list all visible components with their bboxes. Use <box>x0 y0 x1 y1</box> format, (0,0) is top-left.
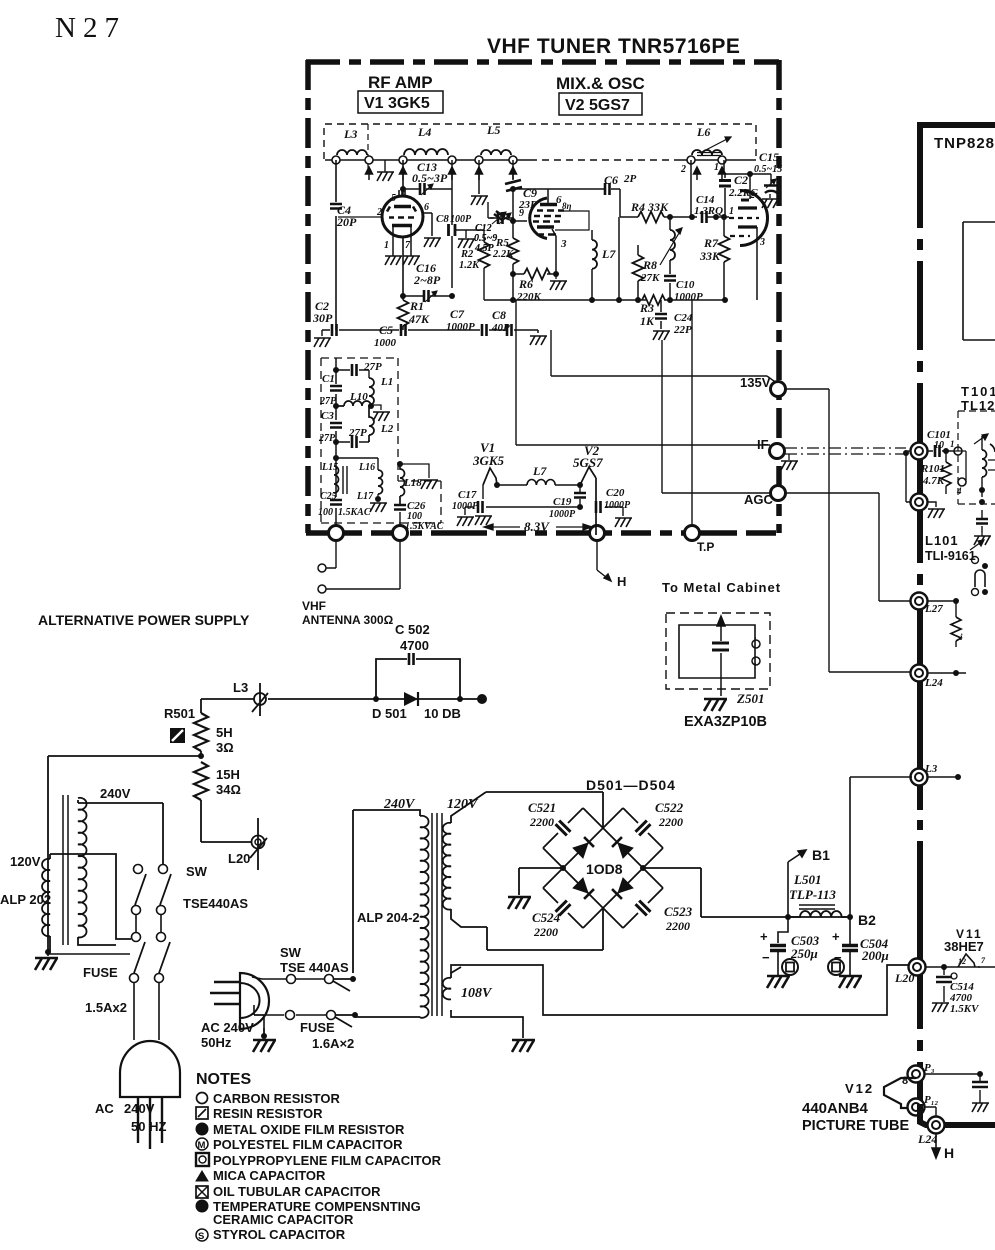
svg-text:FUSE: FUSE <box>300 1020 335 1035</box>
pentode V2 mixer <box>519 194 572 250</box>
svg-text:TNP828: TNP828 <box>934 135 995 152</box>
bus node left <box>329 526 344 541</box>
svg-text:R5: R5 <box>495 237 509 249</box>
wire B2 riser <box>850 777 912 917</box>
svg-text:L2: L2 <box>380 423 394 435</box>
transformer L15 L16 L17 <box>321 462 387 512</box>
svg-text:0.5~15: 0.5~15 <box>754 164 782 175</box>
bus node heater <box>590 526 605 541</box>
wire 135V to right <box>786 389 910 672</box>
svg-text:50Hz: 50Hz <box>201 1035 232 1050</box>
variable inductor osc coil <box>660 214 682 265</box>
capacitor C19 <box>549 485 586 520</box>
capacitor C16 <box>403 261 452 302</box>
svg-text:C521: C521 <box>528 800 556 815</box>
svg-text:R7: R7 <box>703 236 719 250</box>
wire mixer grid <box>513 220 527 222</box>
8.3V dimension <box>484 519 592 534</box>
svg-text:3Ω: 3Ω <box>216 740 234 755</box>
capacitor C3 <box>318 410 342 444</box>
svg-text:R501: R501 <box>164 706 195 721</box>
svg-text:TLI-9161: TLI-9161 <box>925 549 976 563</box>
svg-text:L3: L3 <box>924 763 938 775</box>
node L20 chassis <box>909 959 926 976</box>
capacitor Z501 <box>704 616 764 711</box>
svg-text:C17: C17 <box>458 489 477 501</box>
svg-text:50 HZ: 50 HZ <box>131 1119 166 1134</box>
capacitor C503 250u <box>760 917 820 988</box>
resistor R501 5H 3ohm <box>164 699 234 759</box>
svg-text:R8: R8 <box>642 258 657 272</box>
wire TP vertical <box>691 300 693 526</box>
svg-text:2P: 2P <box>623 173 637 185</box>
svg-text:C 502: C 502 <box>395 622 430 637</box>
svg-text:C9: C9 <box>523 186 537 200</box>
bridge junction dots <box>560 865 566 871</box>
capacitor C14 <box>689 194 729 223</box>
svg-text:C2: C2 <box>734 173 748 187</box>
triode V1 <box>376 189 429 256</box>
node circles on coil line <box>332 156 726 164</box>
svg-text:120V: 120V <box>10 854 41 869</box>
wire screen line <box>484 299 725 301</box>
svg-text:27P: 27P <box>363 361 382 373</box>
capacitor C20 <box>595 487 632 527</box>
fuse mid <box>253 1005 358 1052</box>
svg-text:R2: R2 <box>460 249 474 260</box>
capacitor C502 4700 <box>373 622 463 702</box>
AC plug mid <box>201 973 269 1050</box>
wire P12 branch <box>924 1107 936 1119</box>
svg-text:TSE440AS: TSE440AS <box>183 896 248 911</box>
svg-text:P₃: P₃ <box>924 1062 935 1074</box>
svg-text:L27: L27 <box>924 603 943 615</box>
svg-text:TSE 440AS: TSE 440AS <box>280 960 349 975</box>
svg-text:S: S <box>198 1231 204 1242</box>
H arrow bottom <box>932 1134 940 1158</box>
svg-text:V1 3GK5: V1 3GK5 <box>364 95 430 112</box>
node L3 chassis <box>911 769 928 786</box>
wire heater rail 108V <box>451 965 909 1038</box>
svg-text:8η: 8η <box>562 201 572 211</box>
svg-text:CERAMIC CAPACITOR: CERAMIC CAPACITOR <box>213 1212 354 1227</box>
svg-text:15H: 15H <box>216 767 240 782</box>
svg-text:4.7K: 4.7K <box>922 475 945 487</box>
capacitor C15 trimmer <box>754 150 782 208</box>
inductor L20 ps <box>228 818 267 870</box>
resistor right column <box>951 617 961 641</box>
svg-text:1K: 1K <box>640 314 655 328</box>
svg-text:AGC: AGC <box>744 492 774 507</box>
svg-text:30P: 30P <box>312 311 333 325</box>
svg-text:i: i <box>960 632 963 642</box>
capacitor C522 <box>655 800 684 829</box>
svg-text:NOTES: NOTES <box>196 1071 251 1088</box>
svg-text:1OD8: 1OD8 <box>586 861 623 877</box>
svg-text:5: 5 <box>391 193 396 204</box>
svg-text:POLYESTEL FILM CAPACITOR: POLYESTEL FILM CAPACITOR <box>213 1137 403 1152</box>
wire lower rail with C2 C5 C7 C8 <box>322 330 538 333</box>
svg-text:C522: C522 <box>655 800 684 815</box>
svg-text:4: 4 <box>956 486 962 496</box>
svg-text:6: 6 <box>424 202 429 213</box>
node L24 bottom <box>928 1117 945 1134</box>
switch SW TSE440AS dual <box>132 864 249 932</box>
resistor R2 1.2K <box>459 230 490 300</box>
svg-text:C19: C19 <box>553 496 572 508</box>
antenna terminals <box>326 541 400 589</box>
capacitor C24 22P <box>653 300 693 340</box>
switch SW TSE 440AS mid <box>252 945 356 991</box>
svg-text:2200: 2200 <box>658 815 683 829</box>
T101 dashed box <box>958 411 995 504</box>
wire to ALP202 <box>48 756 201 952</box>
svg-text:2200: 2200 <box>665 919 690 933</box>
svg-text:200μ: 200μ <box>861 948 889 963</box>
svg-text:RF AMP: RF AMP <box>368 73 433 92</box>
svg-text:8.3V: 8.3V <box>524 519 550 534</box>
inductor L6 <box>692 125 731 156</box>
wire to L16 <box>336 458 378 470</box>
svg-text:8: 8 <box>902 1075 908 1087</box>
svg-text:SW: SW <box>280 945 302 960</box>
T101 coil <box>954 434 995 505</box>
svg-text:TLP-113: TLP-113 <box>789 887 836 902</box>
svg-text:12: 12 <box>958 957 966 966</box>
svg-text:1.5KAC: 1.5KAC <box>338 507 371 518</box>
ground on IF line <box>788 454 790 460</box>
svg-text:L17: L17 <box>356 491 374 502</box>
node AGC chassis <box>911 494 928 511</box>
svg-text:4.5P: 4.5P <box>474 243 495 254</box>
svg-text:L3: L3 <box>343 127 357 141</box>
capacitor C17 <box>452 485 580 526</box>
wire P3 right cap <box>925 1073 980 1075</box>
wire D501 rail <box>201 698 482 700</box>
svg-text:OIL TUBULAR CAPACITOR: OIL TUBULAR CAPACITOR <box>213 1184 381 1199</box>
svg-text:33K: 33K <box>699 249 721 263</box>
svg-text:VHF TUNER TNR5716PE: VHF TUNER TNR5716PE <box>487 35 740 58</box>
svg-text:1000P: 1000P <box>604 500 631 511</box>
svg-text:PICTURE TUBE: PICTURE TUBE <box>802 1118 909 1134</box>
svg-text:R6: R6 <box>518 277 533 291</box>
heater V2 <box>573 443 603 535</box>
capacitor C504 200u <box>828 917 889 988</box>
wire V1 plate line <box>423 213 432 236</box>
svg-text:135V: 135V <box>740 375 771 390</box>
svg-text:3: 3 <box>759 237 765 248</box>
capacitor C2 30P <box>312 299 337 347</box>
svg-text:H: H <box>944 1145 954 1161</box>
tuning arrows <box>366 167 726 180</box>
svg-text:L20: L20 <box>228 851 250 866</box>
capacitor 27P top <box>333 361 382 378</box>
capacitor C4 <box>330 203 357 229</box>
wire antenna column <box>335 358 337 533</box>
svg-text:V12: V12 <box>845 1081 874 1096</box>
svg-text:MIX.& OSC: MIX.& OSC <box>556 74 645 93</box>
capacitor C2 2.2RG <box>719 173 758 199</box>
AC plug bottom <box>95 1041 180 1149</box>
capacitor C10 1000P <box>664 260 703 303</box>
svg-text:1000: 1000 <box>374 337 397 349</box>
svg-text:C10: C10 <box>676 279 695 291</box>
svg-text:1000P: 1000P <box>549 509 576 520</box>
svg-text:L5: L5 <box>486 123 500 137</box>
svg-text:220K: 220K <box>516 291 542 303</box>
resistor R7 33K <box>699 217 730 300</box>
svg-text:L101: L101 <box>925 533 959 548</box>
node L27 <box>911 593 928 610</box>
svg-text:1000P: 1000P <box>674 291 703 303</box>
wire bridge out to B line <box>643 868 847 917</box>
capacitor C1 <box>319 373 342 407</box>
svg-text:1.2K: 1.2K <box>459 260 480 271</box>
svg-text:440ANB4: 440ANB4 <box>802 1100 869 1117</box>
capacitor C521 <box>528 800 556 829</box>
wire AGC line <box>662 340 771 493</box>
svg-text:108V: 108V <box>461 986 493 1001</box>
wire osc top: L6 to grid <box>691 160 771 217</box>
antenna input dashed box <box>321 358 441 523</box>
svg-text:+: + <box>832 929 840 944</box>
capacitor 27P mid <box>333 427 369 448</box>
capacitor C514 4700 1.5KV <box>932 967 980 1015</box>
svg-text:L16: L16 <box>358 462 375 473</box>
svg-text:H: H <box>617 574 626 589</box>
svg-text:2200: 2200 <box>533 925 558 939</box>
svg-text:IF: IF <box>757 437 769 452</box>
capacitor C7 1000P <box>446 307 487 336</box>
svg-text:100: 100 <box>318 507 333 518</box>
svg-text:V2 5GS7: V2 5GS7 <box>565 97 630 114</box>
svg-text:L24: L24 <box>924 677 943 689</box>
resistor R5 2.2K <box>492 221 519 274</box>
resistor R3 1K <box>639 301 655 328</box>
svg-text:3: 3 <box>560 238 567 250</box>
svg-text:L3: L3 <box>233 680 248 695</box>
svg-text:RESIN RESISTOR: RESIN RESISTOR <box>213 1106 323 1121</box>
svg-text:L18: L18 <box>403 477 422 489</box>
wire IF line <box>516 300 770 445</box>
inductor L501 TLP-113 <box>785 872 853 920</box>
svg-text:C7: C7 <box>450 307 465 321</box>
svg-text:L15: L15 <box>321 462 338 473</box>
coil section dashed box <box>324 124 756 159</box>
fuse pair <box>48 933 170 1041</box>
diode bridge 10D8 <box>543 808 663 928</box>
capacitor C9 23P <box>505 160 537 221</box>
capacitor C12 <box>474 212 514 254</box>
svg-text:R4 33K: R4 33K <box>630 200 669 214</box>
resistor R6 220K <box>510 269 567 304</box>
inductor L4 <box>404 125 448 155</box>
capacitor C12 trimmer <box>474 202 513 254</box>
wire V2 plate riser <box>547 189 549 204</box>
svg-text:9: 9 <box>519 208 524 219</box>
svg-text:C3: C3 <box>321 410 334 422</box>
svg-text:1.5KVAC: 1.5KVAC <box>405 521 444 532</box>
capacitor C8 100P <box>436 213 484 248</box>
svg-text:CARBON RESISTOR: CARBON RESISTOR <box>213 1091 340 1106</box>
svg-text:1.5KV: 1.5KV <box>950 1003 980 1015</box>
svg-text:38HE7: 38HE7 <box>944 939 984 954</box>
resistor R1 47K <box>398 296 431 330</box>
wire L4 right branch <box>451 160 453 288</box>
svg-text:L1: L1 <box>380 376 393 388</box>
svg-text:L20: L20 <box>894 971 914 985</box>
heater V11 38HE7 <box>926 927 995 970</box>
inductor L7 heater <box>497 464 580 485</box>
svg-text:C523: C523 <box>664 904 693 919</box>
resistor R101 4.7K <box>920 448 951 494</box>
transformer ALP204-2 <box>353 792 493 1018</box>
capacitor C13 <box>400 160 452 195</box>
partial box right <box>963 222 995 340</box>
EXA3ZP10B dashed box <box>666 613 770 689</box>
picture tube V12 envelope <box>802 1078 916 1134</box>
svg-text:AC: AC <box>95 1101 114 1116</box>
svg-text:1.5Ax2: 1.5Ax2 <box>85 1000 127 1015</box>
inductor L18 <box>397 461 438 504</box>
ground bridge left <box>519 868 563 895</box>
legend symbols <box>196 1093 209 1243</box>
svg-text:7: 7 <box>405 240 411 251</box>
wire L3 branch right dot <box>928 776 958 778</box>
screen grid bracket <box>555 211 589 230</box>
svg-text:2~8P: 2~8P <box>413 273 441 287</box>
resistor R4 33K <box>620 200 697 223</box>
svg-text:10 DB: 10 DB <box>424 706 461 721</box>
svg-text:−: − <box>762 950 770 965</box>
svg-text:2: 2 <box>749 190 755 201</box>
inductor L1 <box>369 376 393 405</box>
chassis bottom corner <box>920 1104 995 1125</box>
svg-text:ALTERNATIVE POWER SUPPLY: ALTERNATIVE POWER SUPPLY <box>38 612 250 628</box>
triode V2 osc <box>729 190 768 300</box>
svg-text:L7: L7 <box>601 247 616 261</box>
TNP828 chassis corner <box>920 122 995 1108</box>
wire 120V to bridge <box>486 792 603 950</box>
heater V1 <box>472 440 505 488</box>
svg-text:T101: T101 <box>961 384 995 399</box>
inductor L3 ps <box>233 680 268 716</box>
svg-text:M: M <box>198 1140 206 1151</box>
svg-text:L7: L7 <box>532 464 547 478</box>
svg-text:ALP 204-2: ALP 204-2 <box>357 910 420 925</box>
svg-text:METAL OXIDE FILM RESISTOR: METAL OXIDE FILM RESISTOR <box>213 1122 405 1137</box>
B1 arrow <box>788 847 830 917</box>
svg-text:34Ω: 34Ω <box>216 782 241 797</box>
svg-text:N27: N27 <box>55 12 126 44</box>
capacitor C26 <box>394 500 444 533</box>
svg-text:2200: 2200 <box>529 815 554 829</box>
svg-text:+: + <box>760 929 768 944</box>
svg-text:3GK5: 3GK5 <box>472 453 505 468</box>
svg-text:P₁₂: P₁₂ <box>924 1094 939 1106</box>
svg-text:22P: 22P <box>673 324 692 336</box>
svg-text:B2: B2 <box>858 912 876 928</box>
wire IF shielded line <box>785 448 914 454</box>
svg-text:MICA CAPACITOR: MICA CAPACITOR <box>213 1168 326 1183</box>
capacitor C6 2P <box>604 173 637 195</box>
capacitor C25 <box>318 491 371 518</box>
capacitor C101 <box>927 429 962 457</box>
svg-text:0.5~3P: 0.5~3P <box>412 171 448 185</box>
wire AGC to right <box>786 493 911 601</box>
svg-text:ANTENNA 300Ω: ANTENNA 300Ω <box>302 613 394 627</box>
svg-text:EXA3ZP10B: EXA3ZP10B <box>684 714 767 730</box>
svg-text:240V: 240V <box>100 786 131 801</box>
node P12 <box>908 1099 925 1116</box>
bridge diodes D501-D504 <box>573 837 633 899</box>
inductor L3 <box>337 127 367 155</box>
svg-text:D 501: D 501 <box>372 706 407 721</box>
wire V1 column <box>336 160 403 330</box>
svg-text:1.3RQ: 1.3RQ <box>694 205 723 217</box>
svg-text:FUSE: FUSE <box>83 965 118 980</box>
svg-text:C8: C8 <box>436 213 449 225</box>
resistor 15H 34ohm <box>194 762 252 842</box>
svg-text:VHF: VHF <box>302 599 326 613</box>
svg-text:C5: C5 <box>379 323 393 337</box>
svg-text:C24: C24 <box>674 312 693 324</box>
tube label V2 5GS7 <box>559 93 642 115</box>
svg-text:C20: C20 <box>606 487 625 499</box>
svg-text:R1: R1 <box>409 299 424 313</box>
svg-text:250μ: 250μ <box>790 946 818 961</box>
diode D501 10DB <box>372 692 461 721</box>
svg-text:L501: L501 <box>793 872 821 887</box>
svg-text:C8: C8 <box>492 308 506 322</box>
svg-text:1000P: 1000P <box>446 321 475 333</box>
wire L27 branch <box>928 601 956 617</box>
svg-text:100P: 100P <box>450 214 472 225</box>
wire C6 drop <box>618 217 620 300</box>
svg-text:Z501: Z501 <box>736 691 764 706</box>
node P3 <box>908 1066 925 1083</box>
node T.P <box>685 526 700 541</box>
NOTES legend <box>196 1071 442 1242</box>
svg-text:T.P: T.P <box>697 540 714 554</box>
svg-text:C15: C15 <box>759 150 779 164</box>
inductor L2 <box>369 405 394 442</box>
wire V1 grid left <box>338 216 382 218</box>
wire C6 line <box>513 189 620 217</box>
inductor L5 <box>481 123 511 155</box>
svg-text:SW: SW <box>186 864 208 879</box>
inductor L7 plate choke <box>592 230 616 300</box>
ground V1 cathode pins <box>385 256 402 265</box>
svg-text:1: 1 <box>950 439 955 449</box>
svg-text:2: 2 <box>680 164 686 175</box>
svg-text:240V: 240V <box>124 1101 155 1116</box>
ground below coil line <box>377 172 394 181</box>
wire H lead <box>597 541 611 581</box>
EXA3ZP10B inner box <box>679 625 756 678</box>
svg-text:To Metal Cabinet: To Metal Cabinet <box>662 580 781 595</box>
L101 coil parts <box>970 510 991 596</box>
bridge cap plates <box>556 821 651 916</box>
tuner enclosure dashed border <box>306 60 779 533</box>
svg-text:1: 1 <box>729 206 734 217</box>
wire V2 cathode <box>552 229 556 274</box>
wire coil line <box>325 159 756 161</box>
ground after C8 <box>530 336 547 345</box>
terminal dot <box>477 694 487 704</box>
wire IF junction into chassis <box>911 443 928 460</box>
resistor R8 27K <box>633 245 661 300</box>
